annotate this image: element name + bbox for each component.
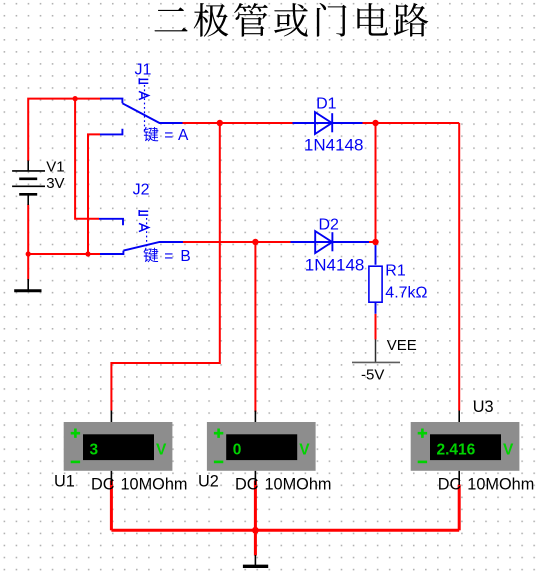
junction node A [217, 120, 223, 126]
svg-text:0: 0 [233, 441, 242, 458]
label 键 = A [144, 127, 189, 144]
junction D2 cathode / R1 [372, 239, 378, 245]
svg-text:4.7kΩ: 4.7kΩ [385, 285, 427, 302]
voltmeter U1 [64, 411, 173, 486]
wire: node B down to U2 [254, 242, 256, 412]
junction node at J1 input [73, 96, 78, 101]
wire: node A down-left to U1 [111, 123, 219, 411]
svg-text:U3: U3 [473, 398, 494, 416]
wire: U2 minus down to bottom bus [254, 481, 257, 531]
svg-text:2.416: 2.416 [437, 441, 476, 458]
wire: battery bottom [27, 205, 29, 255]
ground (bottom) [243, 555, 268, 566]
svg-text:V: V [503, 441, 514, 458]
wire: right vertical to U3 [458, 123, 460, 411]
svg-text:R1: R1 [385, 262, 406, 279]
junction D1 cathode [372, 120, 378, 126]
diode D1 [293, 112, 363, 134]
svg-text:B: B [180, 248, 190, 265]
svg-text:=: = [164, 248, 173, 265]
svg-text:1N4148: 1N4148 [304, 135, 364, 154]
svg-text:V1: V1 [46, 159, 64, 176]
power VEE -5V [352, 339, 400, 362]
junction bottom bus [252, 527, 259, 534]
junction bottom-left rail [85, 251, 90, 256]
wire: J2 common to D2 anode [183, 241, 291, 243]
svg-text:3V: 3V [46, 175, 64, 192]
voltmeter U3 [411, 411, 520, 486]
svg-text:D2: D2 [319, 216, 340, 233]
battery V1 [12, 161, 45, 206]
wire: bottom-left rail [28, 253, 100, 255]
svg-text:U2: U2 [198, 473, 219, 491]
wire: J1 common to D1 anode [183, 122, 293, 124]
wire: to left ground [27, 254, 29, 280]
svg-text:3: 3 [90, 441, 99, 458]
svg-text:DC: DC [235, 476, 259, 494]
wire: bottom bus [111, 529, 459, 532]
svg-text:DC: DC [438, 476, 462, 494]
svg-text:=: = [164, 127, 173, 144]
svg-text:D1: D1 [316, 95, 337, 112]
switch J2 [99, 210, 183, 254]
wire: node to J2 upper throw [75, 99, 99, 219]
svg-text:1N4148: 1N4148 [305, 256, 365, 275]
switch J1 [100, 78, 183, 134]
wire: D1 cathode to right vertical [363, 122, 460, 124]
diode D2 [291, 231, 370, 253]
wire: bus to bottom ground [254, 530, 257, 555]
wire: D2 cathode to R1 node [369, 241, 376, 243]
wire: U3 minus down to bottom bus [458, 485, 461, 531]
wire: R1 bottom to VEE [375, 314, 377, 340]
svg-text:V: V [156, 441, 167, 458]
svg-text:V: V [299, 441, 310, 458]
title 二极管或门电路 [155, 3, 429, 37]
svg-text:A: A [178, 127, 189, 144]
svg-text:10MOhm: 10MOhm [121, 476, 188, 494]
ground (left) [14, 279, 41, 291]
svg-text:10MOhm: 10MOhm [467, 476, 534, 494]
wire: D1/D2 junction vertical [375, 123, 377, 242]
junction node B [252, 239, 258, 245]
svg-text:J1: J1 [135, 62, 152, 79]
junction battery negative [26, 251, 31, 256]
voltmeter U2 [207, 411, 316, 486]
wire: U1 minus down to bottom bus [110, 481, 113, 531]
svg-text:DC: DC [91, 476, 115, 494]
label 键 = B [143, 248, 190, 265]
wire: battery top to J1 input [28, 99, 100, 161]
svg-text:U1: U1 [54, 473, 75, 491]
svg-text:VEE: VEE [387, 337, 417, 354]
svg-text:-5V: -5V [361, 367, 384, 384]
svg-text:10MOhm: 10MOhm [265, 476, 332, 494]
resistor R1 [369, 242, 382, 314]
svg-text:J2: J2 [133, 182, 150, 199]
wire: J1 lower throw down to bottom rail [88, 134, 100, 254]
